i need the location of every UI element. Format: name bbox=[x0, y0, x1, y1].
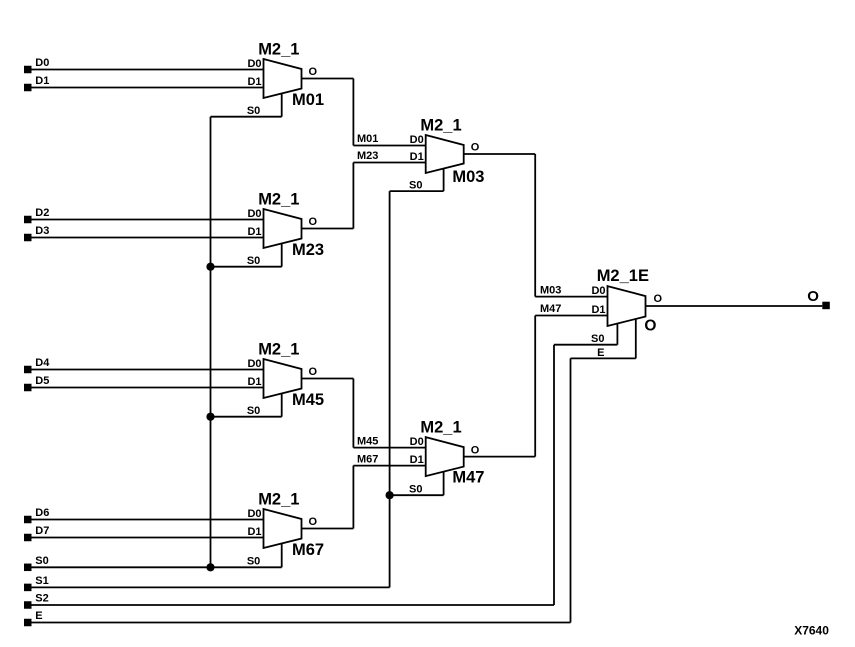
wire D4 input to M45.D0 bbox=[32, 369, 264, 371]
svg-text:O: O bbox=[309, 216, 318, 228]
svg-text:D0: D0 bbox=[410, 436, 424, 448]
wire D3 input to M23.D1 bbox=[32, 237, 264, 239]
svg-text:D2: D2 bbox=[35, 207, 49, 219]
svg-text:O: O bbox=[644, 317, 656, 334]
wire S1 input run bbox=[32, 586, 390, 588]
wire output O from U7.O bbox=[646, 305, 823, 307]
wire net M03 to U7.D0 bbox=[535, 296, 607, 298]
mux M03 body bbox=[426, 135, 464, 173]
svg-text:M2_1: M2_1 bbox=[420, 117, 461, 135]
input terminal S2 bbox=[24, 601, 32, 609]
mux M45 S0 pin stub wire bbox=[281, 393, 283, 416]
svg-text:S2: S2 bbox=[35, 593, 48, 605]
svg-text:D7: D7 bbox=[35, 525, 49, 537]
svg-text:D1: D1 bbox=[247, 76, 261, 88]
wire D0 input to M01.D0 bbox=[32, 69, 264, 71]
svg-text:O: O bbox=[309, 366, 318, 378]
wire net M67 from M67.O bbox=[302, 528, 354, 530]
wire net M45 to M47.D0 bbox=[353, 447, 425, 449]
input terminal D5 bbox=[24, 384, 32, 392]
wire net M47 from M47.O bbox=[464, 456, 536, 458]
mux M01 body bbox=[264, 59, 302, 98]
mux U7 E pin stub wire bbox=[635, 319, 637, 358]
svg-text:D1: D1 bbox=[410, 151, 424, 163]
svg-text:S0: S0 bbox=[247, 105, 260, 117]
wire net M23 to M03.D1 bbox=[353, 162, 425, 164]
svg-text:M03: M03 bbox=[540, 284, 561, 296]
svg-text:D0: D0 bbox=[247, 208, 261, 220]
svg-text:S0: S0 bbox=[35, 555, 48, 567]
svg-text:O: O bbox=[309, 66, 318, 78]
junction S0/M23 bbox=[206, 263, 214, 271]
svg-text:M01: M01 bbox=[292, 91, 324, 109]
svg-text:D1: D1 bbox=[247, 226, 261, 238]
mux M47 body bbox=[426, 437, 464, 476]
mux M01 S0 pin stub wire bbox=[281, 93, 283, 116]
wire net M01 to M03.D0 bbox=[353, 145, 425, 147]
svg-text:D6: D6 bbox=[35, 507, 49, 519]
svg-text:S0: S0 bbox=[591, 333, 604, 345]
svg-text:M67: M67 bbox=[357, 453, 378, 465]
svg-text:M2_1: M2_1 bbox=[258, 491, 299, 509]
input terminal D3 bbox=[24, 234, 32, 242]
wire D7 input to M67.D1 bbox=[32, 537, 264, 539]
svg-text:M2_1: M2_1 bbox=[258, 191, 299, 209]
wire net M03 vertical bbox=[534, 154, 536, 297]
wire D2 input to M23.D0 bbox=[32, 219, 264, 221]
svg-text:D1: D1 bbox=[247, 526, 261, 538]
wire net M01 vertical bbox=[352, 79, 354, 146]
wire S0 branch to M01.S0 bbox=[211, 116, 282, 118]
svg-text:D0: D0 bbox=[591, 285, 605, 297]
mux M45 body bbox=[264, 359, 302, 398]
input terminal D0 bbox=[24, 66, 32, 74]
mux M03 S0 pin stub wire bbox=[443, 169, 445, 192]
svg-text:M45: M45 bbox=[357, 435, 378, 447]
svg-text:E: E bbox=[35, 610, 42, 622]
svg-text:M01: M01 bbox=[357, 133, 378, 145]
svg-text:M03: M03 bbox=[452, 168, 484, 186]
wire D6 input to M67.D0 bbox=[32, 519, 264, 521]
wire S0 vertical bus bbox=[210, 117, 212, 568]
wire net M23 from M23.O bbox=[302, 228, 354, 230]
svg-text:S0: S0 bbox=[247, 405, 260, 417]
wire D1 input to M01.D1 bbox=[32, 87, 264, 89]
svg-text:D5: D5 bbox=[35, 375, 49, 387]
svg-text:O: O bbox=[654, 293, 663, 305]
svg-text:M2_1: M2_1 bbox=[420, 419, 461, 437]
wire E input run bbox=[32, 622, 571, 624]
wire D5 input to M45.D1 bbox=[32, 387, 264, 389]
wire net M47 vertical bbox=[534, 316, 536, 457]
input terminal D2 bbox=[24, 216, 32, 224]
wire S0 branch to M23.S0 bbox=[211, 266, 282, 268]
mux M23 body bbox=[264, 209, 302, 248]
svg-text:S0: S0 bbox=[409, 179, 422, 191]
mux M67 S0 pin stub wire bbox=[281, 543, 283, 567]
mux M47 S0 pin stub wire bbox=[443, 472, 445, 496]
wire net M67 vertical bbox=[352, 466, 354, 529]
svg-text:S0: S0 bbox=[247, 255, 260, 267]
svg-text:D1: D1 bbox=[247, 376, 261, 388]
svg-text:D0: D0 bbox=[410, 134, 424, 146]
junction S1/M47 bbox=[386, 491, 394, 499]
svg-text:O: O bbox=[471, 142, 480, 154]
wire S2 input run bbox=[32, 604, 555, 606]
svg-text:S1: S1 bbox=[35, 575, 48, 587]
svg-text:O: O bbox=[471, 444, 480, 456]
wire net M45 from M45.O bbox=[302, 378, 354, 380]
wire S0 branch to M45.S0 bbox=[211, 416, 282, 418]
wire E to U7.E bbox=[571, 357, 636, 359]
input terminal S1 bbox=[24, 584, 32, 592]
wire S0 input to M67.S0 bbox=[32, 566, 282, 568]
wire net M01 from M01.O bbox=[302, 78, 354, 80]
svg-text:E: E bbox=[597, 347, 604, 359]
svg-text:O: O bbox=[807, 288, 819, 305]
svg-text:D0: D0 bbox=[247, 508, 261, 520]
svg-text:D1: D1 bbox=[35, 75, 49, 87]
svg-text:X7640: X7640 bbox=[794, 623, 829, 637]
wire net M47 to U7.D1 bbox=[535, 315, 607, 317]
mux U7 (M2_1E) body bbox=[608, 286, 646, 326]
input terminal E bbox=[24, 619, 32, 627]
svg-text:O: O bbox=[309, 516, 318, 528]
wire S1 branch to M47.S0 bbox=[390, 494, 444, 496]
svg-text:M45: M45 bbox=[292, 391, 324, 409]
svg-text:D1: D1 bbox=[591, 304, 605, 316]
input terminal S0 bbox=[24, 564, 32, 572]
wire net M23 vertical bbox=[352, 163, 354, 229]
mux U7 S0 pin stub wire bbox=[616, 324, 618, 345]
svg-text:M2_1: M2_1 bbox=[258, 41, 299, 59]
junction S0/M45 bbox=[206, 413, 214, 421]
wire net M45 vertical bbox=[352, 379, 354, 448]
wire net M03 from M03.O bbox=[464, 153, 536, 155]
svg-text:D1: D1 bbox=[410, 454, 424, 466]
svg-text:M2_1: M2_1 bbox=[258, 341, 299, 359]
svg-text:M2_1E: M2_1E bbox=[597, 267, 649, 285]
wire S2 to U7.S0 bbox=[554, 344, 617, 346]
input terminal D6 bbox=[24, 516, 32, 524]
svg-text:M47: M47 bbox=[540, 303, 561, 315]
svg-text:S0: S0 bbox=[409, 483, 422, 495]
svg-text:S0: S0 bbox=[247, 556, 260, 568]
svg-text:D0: D0 bbox=[35, 57, 49, 69]
output terminal O bbox=[822, 302, 830, 310]
wire S1 branch to M03.S0 bbox=[390, 190, 444, 192]
junction S0/M67 bbox=[206, 563, 214, 571]
svg-text:M23: M23 bbox=[292, 241, 324, 259]
svg-text:D0: D0 bbox=[247, 358, 261, 370]
input terminal D4 bbox=[24, 366, 32, 374]
input terminal D1 bbox=[24, 84, 32, 92]
wire S2 vertical riser bbox=[553, 345, 555, 605]
wire S1 vertical bus bbox=[389, 191, 391, 587]
svg-text:D3: D3 bbox=[35, 225, 49, 237]
wire E vertical riser bbox=[570, 358, 572, 622]
svg-text:M67: M67 bbox=[292, 541, 324, 559]
svg-text:D0: D0 bbox=[247, 58, 261, 70]
mux M23 S0 pin stub wire bbox=[281, 243, 283, 266]
mux M67 body bbox=[264, 509, 302, 548]
svg-text:M23: M23 bbox=[357, 150, 378, 162]
svg-text:M47: M47 bbox=[452, 468, 484, 486]
svg-text:D4: D4 bbox=[35, 357, 50, 369]
input terminal D7 bbox=[24, 534, 32, 542]
wire net M67 to M47.D1 bbox=[353, 465, 425, 467]
